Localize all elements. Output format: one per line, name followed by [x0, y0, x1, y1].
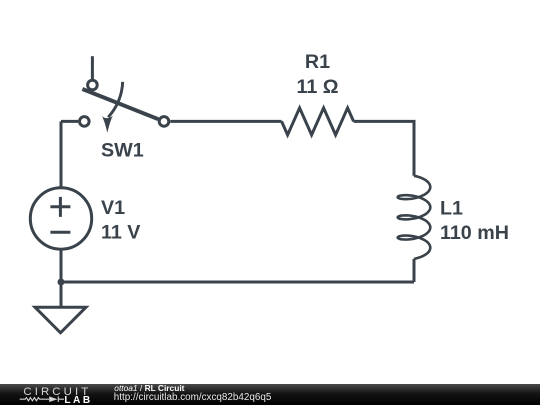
svg-text:LAB: LAB [64, 395, 92, 405]
svg-text:11 Ω: 11 Ω [296, 76, 338, 98]
svg-text:110 mH: 110 mH [440, 222, 509, 244]
svg-text:11 V: 11 V [101, 221, 140, 243]
svg-text:L1: L1 [440, 198, 463, 220]
svg-text:V1: V1 [101, 197, 125, 219]
svg-text:http://circuitlab.com/cxcq82b4: http://circuitlab.com/cxcq82b42q6q5 [114, 392, 272, 403]
svg-text:SW1: SW1 [101, 139, 144, 161]
svg-text:R1: R1 [305, 51, 330, 73]
